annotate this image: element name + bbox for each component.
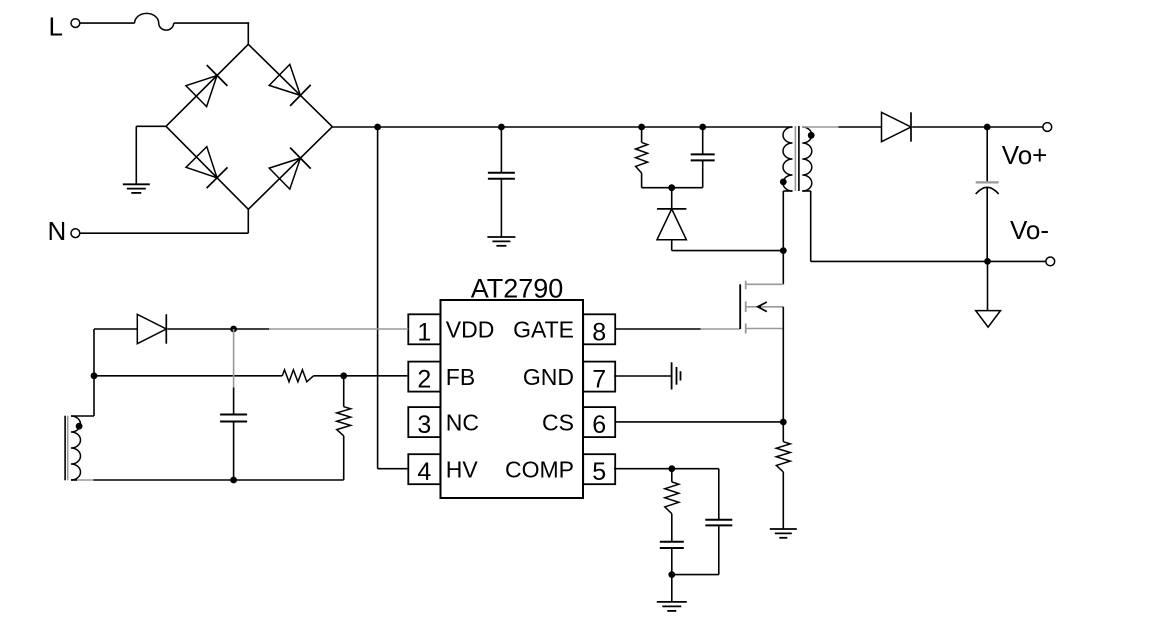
svg-text:FB: FB bbox=[446, 364, 475, 390]
svg-text:COMP: COMP bbox=[505, 457, 574, 483]
svg-text:5: 5 bbox=[592, 458, 606, 486]
svg-text:7: 7 bbox=[592, 366, 606, 394]
svg-text:AT2790: AT2790 bbox=[471, 274, 564, 304]
svg-text:8: 8 bbox=[592, 318, 606, 346]
svg-text:4: 4 bbox=[417, 458, 431, 486]
svg-text:N: N bbox=[48, 216, 67, 246]
svg-text:1: 1 bbox=[417, 318, 431, 346]
svg-text:Vo-: Vo- bbox=[1010, 215, 1049, 245]
svg-text:NC: NC bbox=[446, 410, 479, 436]
svg-text:CS: CS bbox=[542, 410, 574, 436]
svg-text:GND: GND bbox=[523, 364, 574, 390]
svg-text:Vo+: Vo+ bbox=[1002, 140, 1048, 170]
svg-text:GATE: GATE bbox=[513, 317, 574, 343]
svg-text:2: 2 bbox=[417, 366, 431, 394]
svg-text:3: 3 bbox=[417, 411, 431, 439]
svg-text:6: 6 bbox=[592, 411, 606, 439]
svg-text:VDD: VDD bbox=[446, 317, 495, 343]
svg-text:HV: HV bbox=[446, 457, 479, 483]
svg-text:L: L bbox=[49, 12, 63, 42]
